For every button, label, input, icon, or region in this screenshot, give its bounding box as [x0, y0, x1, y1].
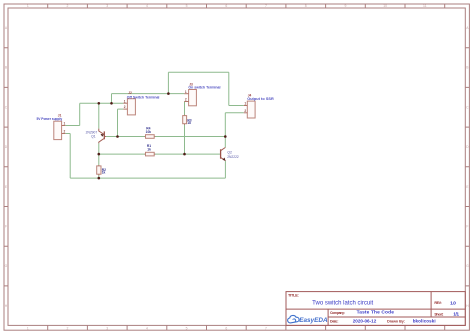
svg-text:F: F [5, 225, 7, 229]
wire to J4 pin2 [225, 112, 244, 114]
svg-text:2: 2 [185, 98, 187, 102]
svg-text:Output to SSR: Output to SSR [247, 97, 274, 101]
svg-text:Sheet:: Sheet: [434, 313, 443, 317]
connector J4 pin 1 lead [244, 105, 248, 107]
svg-text:TITLE:: TITLE: [288, 292, 299, 297]
transistor Q1 (PNP 2N2907, mirrored, emitter at top) [86, 129, 106, 144]
resistor R1 [145, 144, 156, 156]
EasyEDA logo [288, 315, 328, 324]
svg-text:bkolicoski: bkolicoski [413, 318, 436, 323]
title block col line logo [327, 309, 329, 325]
svg-text:6: 6 [225, 326, 227, 330]
svg-text:2: 2 [244, 109, 246, 113]
svg-text:1k: 1k [147, 148, 151, 152]
node Q2 collector / R4 / J4 pin2 [224, 135, 227, 138]
resistor R2 leads [98, 165, 100, 175]
svg-text:7: 7 [265, 4, 267, 8]
svg-text:1/1: 1/1 [453, 312, 459, 317]
wire upper rail to J3 pin1 [112, 93, 185, 95]
resistor R2 body [97, 166, 101, 174]
transistor Q1 base lead [104, 136, 106, 138]
resistor R3 leads [184, 115, 186, 125]
svg-text:J2: J2 [128, 91, 132, 95]
transistor Q2 (NPN 2N2222, mirrored, collector at top) [220, 148, 239, 161]
svg-text:5: 5 [186, 4, 188, 8]
svg-text:On switch Terminal: On switch Terminal [188, 86, 220, 90]
wire ground rail [70, 177, 225, 179]
svg-text:Taste The Code: Taste The Code [357, 310, 395, 316]
wire top rail [168, 71, 228, 73]
transistor Q2 collector lead [221, 148, 226, 151]
svg-text:1k: 1k [102, 171, 106, 175]
wire J1 pin1 to riser [65, 125, 79, 127]
svg-text:4: 4 [146, 4, 148, 8]
svg-text:1: 1 [244, 102, 246, 106]
svg-text:REV:: REV: [434, 301, 441, 305]
resistor R4 body [146, 135, 155, 139]
connector J1 pin 1 lead [62, 125, 66, 127]
svg-text:9: 9 [344, 4, 346, 8]
svg-text:G: G [466, 264, 469, 268]
svg-text:2: 2 [67, 326, 69, 330]
wire ground rail up to Q2 emitter [224, 161, 226, 178]
svg-text:3: 3 [106, 326, 108, 330]
svg-text:3: 3 [106, 4, 108, 8]
svg-text:1k: 1k [187, 121, 191, 125]
transistor Q2 emitter arrow [222, 158, 225, 161]
svg-text:2020-06-12: 2020-06-12 [353, 318, 377, 323]
node Q1 base / J2 pin2 [116, 135, 119, 138]
wire 5V rail down to Q1 emitter [98, 103, 100, 128]
title block row line 1 [286, 308, 465, 310]
wire ground riser [69, 134, 71, 179]
wire R2 bottom to ground rail [98, 174, 100, 178]
transistor Q1 emitter lead [99, 129, 104, 135]
svg-text:10k: 10k [146, 130, 152, 134]
svg-text:4: 4 [146, 326, 148, 330]
connector J2 body [127, 99, 135, 115]
svg-text:8: 8 [305, 4, 307, 8]
svg-text:1: 1 [124, 99, 126, 103]
connector J4 pin 2 lead [244, 112, 248, 114]
svg-text:1.0: 1.0 [450, 301, 456, 306]
connector J2 pin 1 lead [123, 102, 127, 104]
transistor Q1 collector lead [99, 139, 104, 144]
EasyEDA logo cloud icon [288, 315, 300, 323]
EasyEDA logo cloud swirl [293, 319, 296, 322]
wire top rail down to J4 pin1 [228, 72, 230, 105]
svg-text:2: 2 [124, 105, 126, 109]
connector J3 pin 2 lead [184, 101, 188, 103]
svg-text:6: 6 [225, 4, 227, 8]
svg-text:5V Power supply: 5V Power supply [37, 117, 63, 121]
resistor R2 [97, 165, 106, 175]
svg-text:1: 1 [27, 4, 29, 8]
svg-text:5: 5 [186, 326, 188, 330]
svg-text:1: 1 [27, 326, 29, 330]
connector J2 [123, 91, 159, 115]
node 5V rail / Q1 emitter [98, 102, 101, 105]
title block col line rev [430, 292, 432, 317]
wire 5V rail to J2 pin1 [80, 102, 124, 104]
resistor R3 [183, 115, 192, 125]
svg-text:F: F [466, 225, 468, 229]
wire riser to 5V rail [79, 103, 81, 125]
wire Q2 collector node down to Q2 collector [224, 137, 226, 148]
wire Q1 collector down to R2 top [98, 143, 100, 166]
wire J1 pin2 stub [65, 133, 70, 135]
svg-text:2: 2 [64, 130, 66, 134]
resistor R1 body [146, 152, 155, 156]
svg-text:2N2222: 2N2222 [227, 155, 239, 159]
wire Q1 base to R4 left [106, 136, 145, 138]
svg-text:Two switch latch circuit: Two switch latch circuit [312, 301, 373, 307]
svg-text:1: 1 [185, 90, 187, 94]
wire J2 pin2 stub [118, 108, 124, 110]
connector J4 body [247, 101, 255, 118]
connector J3 body [189, 90, 197, 106]
wire J2 pin2 down to Q1 base rail [117, 109, 119, 136]
svg-text:7: 7 [265, 326, 267, 330]
transistor Q2 base lead [219, 153, 222, 155]
svg-text:Q1: Q1 [91, 135, 96, 139]
node Q1 collector / R1 / R2 [98, 153, 101, 156]
svg-text:G: G [5, 264, 8, 268]
connector J3 [184, 82, 220, 106]
resistor R4 [145, 127, 156, 139]
connector J1 pin 2 lead [62, 133, 66, 135]
wire Q2 base rail right [154, 153, 220, 155]
transistor Q2 emitter lead [221, 157, 226, 161]
wire J3 pin2 down to R3 top [184, 102, 186, 116]
wire R3 bottom to base rail [184, 124, 186, 154]
node 5V rail / riser [110, 102, 113, 105]
connector J4 [244, 93, 274, 118]
node R3 bottom / base rail [183, 153, 186, 156]
connector J2 pin 2 lead [123, 108, 127, 110]
transistor Q1 base bar [103, 131, 105, 139]
connector J1 body [54, 121, 62, 139]
svg-text:11: 11 [423, 4, 427, 8]
resistor R4 leads [145, 136, 156, 138]
node R2 bottom / ground rail [98, 177, 101, 180]
svg-text:Company:: Company: [330, 311, 345, 315]
wire to J4 pin1 [229, 105, 244, 107]
wire Q2 base rail left [99, 153, 146, 155]
svg-text:EasyEDA: EasyEDA [299, 317, 328, 324]
svg-text:Off Switch Terminal: Off Switch Terminal [127, 96, 160, 100]
svg-text:10: 10 [383, 4, 387, 8]
svg-text:1: 1 [64, 122, 66, 126]
connector J1 [37, 113, 66, 139]
connector J3 pin 1 lead [184, 93, 188, 95]
transistor Q1 emitter arrow [101, 134, 104, 137]
wire R4 right to Q2 collector node [154, 136, 225, 138]
svg-text:2: 2 [67, 4, 69, 8]
title block outline [286, 292, 465, 326]
wire Q2 collector node up to J4 pin2 level [224, 113, 226, 137]
node upper rail / top rail [167, 92, 170, 95]
transistor Q2 base bar [220, 149, 222, 158]
title block row line 2 [328, 316, 465, 318]
wire node A riser up [111, 94, 113, 104]
wire junction up to top rail [167, 72, 169, 93]
resistor R1 leads [145, 153, 156, 155]
svg-text:Drawn By:: Drawn By: [387, 319, 405, 323]
resistor R3 body [183, 116, 187, 124]
svg-text:Date:: Date: [330, 319, 338, 323]
